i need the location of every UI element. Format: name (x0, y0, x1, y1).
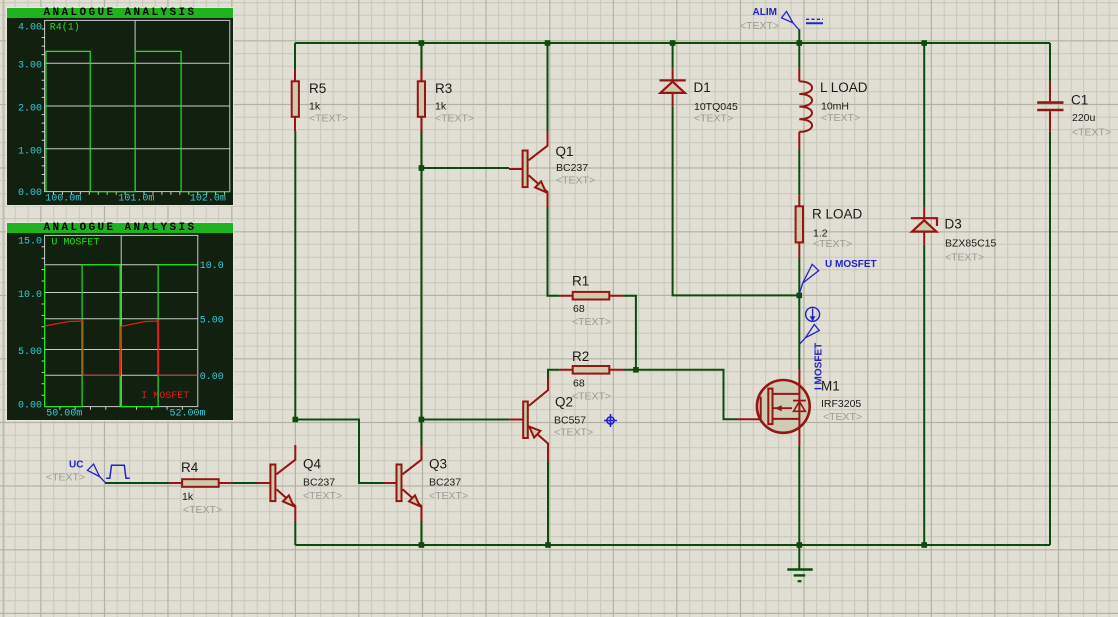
wire D3 bottom (923, 245, 925, 545)
wire D1 top (672, 43, 674, 68)
svg-text:IRF3205: IRF3205 (821, 398, 861, 410)
svg-text:68: 68 (573, 377, 585, 389)
wire drain node to M1 (798, 295, 800, 369)
wire R5 bottom to node (294, 131, 296, 420)
junction R3/Q3 collector node (419, 417, 425, 423)
ground (787, 545, 812, 581)
junction ALIM/rail (797, 40, 803, 46)
gridlines (45, 20, 230, 191)
junction Q1/rail (545, 40, 551, 46)
junction D3/ground rail (921, 542, 927, 548)
svg-text:Q3: Q3 (429, 457, 447, 472)
junction D1/rail (670, 40, 676, 46)
wire R4 to Q4 base (232, 482, 257, 484)
junction R3/rail (419, 40, 425, 46)
svg-text:1k: 1k (309, 100, 321, 112)
svg-text:UC: UC (69, 460, 83, 471)
wire bottom ground rail (295, 544, 1050, 546)
graph panel 2: ANALOGUE ANALYSIS (U MOSFET / I MOSFET) (6, 222, 234, 421)
wire ALIM drop (798, 30, 800, 44)
resistor R4 (169, 479, 233, 487)
resistor R1 (559, 292, 624, 300)
svg-text:U MOSFET: U MOSFET (825, 259, 877, 270)
wire Q2 collector to R2 (548, 370, 559, 378)
axis ticks (42, 247, 45, 395)
svg-text:<TEXT>: <TEXT> (694, 113, 733, 125)
wire Q2 base (421, 419, 509, 421)
svg-text:<TEXT>: <TEXT> (813, 238, 852, 250)
svg-text:Q4: Q4 (303, 457, 322, 472)
svg-text:C1: C1 (1071, 93, 1088, 108)
wire node to Q3 base (295, 420, 383, 484)
resistor R5 (292, 69, 299, 131)
generator UC (pulse source symbol) (87, 464, 129, 482)
svg-text:Q1: Q1 (556, 144, 574, 159)
transistor Q2 (PNP) (509, 378, 548, 462)
svg-text:68: 68 (573, 303, 585, 315)
wire R1 right (624, 296, 636, 370)
wire Q4 emitter down (294, 521, 296, 545)
svg-text:R1: R1 (572, 273, 589, 288)
svg-text:<TEXT>: <TEXT> (435, 112, 474, 124)
svg-text:10TQ045: 10TQ045 (694, 101, 738, 113)
junction drain node (797, 293, 803, 299)
junction D3/rail (921, 40, 927, 46)
origin marker (604, 414, 617, 427)
svg-text:D1: D1 (694, 80, 711, 95)
wire Q1 base (421, 167, 509, 169)
svg-text:1k: 1k (435, 100, 447, 112)
y axis labels right (200, 261, 224, 383)
x axis labels (46, 408, 205, 419)
transistor Q1 (509, 131, 548, 207)
svg-text:BC237: BC237 (303, 477, 335, 489)
plot frame (45, 235, 198, 406)
wire R LOAD to drain node (798, 258, 800, 295)
resistor R2 (559, 366, 624, 374)
svg-text:<TEXT>: <TEXT> (309, 112, 348, 124)
inductor L LOAD (799, 68, 812, 149)
wire UC to R4 (105, 482, 169, 484)
x axis labels (45, 193, 226, 204)
svg-text:<TEXT>: <TEXT> (183, 504, 222, 516)
svg-text:10mH: 10mH (821, 100, 849, 112)
junction M1 source/ground rail (797, 542, 803, 548)
svg-text:R5: R5 (309, 81, 326, 96)
wire Q1 collector to rail (547, 43, 549, 131)
svg-text:<TEXT>: <TEXT> (740, 20, 779, 32)
svg-text:<TEXT>: <TEXT> (821, 112, 860, 124)
wire M1 source to ground rail (798, 446, 800, 545)
trace I MOSFET red (45, 321, 198, 375)
junction Q1 base node (419, 165, 425, 171)
svg-text:<TEXT>: <TEXT> (572, 391, 611, 403)
wire Q1 emitter to R1 (548, 207, 560, 296)
wire R3 bottom (420, 131, 422, 168)
wire D1 bottom to drain node (673, 107, 800, 296)
svg-text:<TEXT>: <TEXT> (46, 472, 85, 484)
wire Q2 emitter down (547, 462, 549, 545)
svg-text:I MOSFET: I MOSFET (814, 343, 825, 390)
svg-text:BC557: BC557 (554, 415, 586, 427)
svg-text:R3: R3 (435, 81, 452, 96)
wire R3 line down to Q3 collector (420, 168, 422, 445)
wire R5 top (294, 43, 296, 69)
svg-text:ALIM: ALIM (753, 7, 777, 18)
junction Q2 emitter/ground rail (545, 542, 551, 548)
wire D3 top (923, 43, 925, 207)
wire C1 top (1049, 43, 1051, 82)
junction R5/Q4 collector node (293, 417, 299, 423)
svg-text:220u: 220u (1072, 112, 1096, 124)
svg-text:<TEXT>: <TEXT> (556, 174, 595, 186)
y axis labels left (18, 236, 42, 411)
wire R2 right to MOSFET gate (624, 370, 737, 420)
zener diode D3 (911, 207, 937, 245)
wire L LOAD top (798, 43, 800, 68)
graph panel 1: ANALOGUE ANALYSIS (R4(1)) (6, 7, 234, 206)
trace R4(1) square wave (46, 51, 230, 191)
svg-text:BC237: BC237 (429, 477, 461, 489)
svg-text:R LOAD: R LOAD (812, 207, 863, 222)
junction Q3 emitter/ground rail (419, 542, 425, 548)
MOSFET M1 (737, 370, 810, 446)
plot frame (45, 20, 230, 191)
generator ALIM (DC source symbol) (782, 11, 824, 30)
trace U MOSFET green (45, 265, 198, 407)
transistor Q3 (383, 445, 422, 521)
svg-text:BZX85C15: BZX85C15 (945, 238, 997, 250)
gridlines (45, 235, 198, 406)
svg-text:<TEXT>: <TEXT> (1072, 127, 1111, 139)
y axis labels (18, 22, 42, 199)
wire L LOAD to R LOAD (798, 149, 800, 196)
svg-text:Q2: Q2 (555, 395, 573, 410)
current probe I MOSFET (799, 307, 819, 344)
svg-text:<TEXT>: <TEXT> (823, 411, 862, 423)
wire top supply rail (295, 42, 1050, 44)
resistor R3 (418, 69, 425, 131)
svg-text:R2: R2 (572, 349, 589, 364)
junction R1/R2 node (633, 367, 639, 373)
resistor R LOAD (796, 196, 803, 258)
svg-text:1k: 1k (182, 491, 194, 503)
capacitor C1 (1037, 82, 1063, 131)
voltage probe U MOSFET (799, 264, 819, 295)
svg-text:<TEXT>: <TEXT> (554, 426, 593, 438)
wire Q3 emitter down (420, 521, 422, 545)
svg-text:<TEXT>: <TEXT> (303, 490, 342, 502)
transistor Q4 (257, 445, 296, 521)
svg-text:<TEXT>: <TEXT> (429, 490, 468, 502)
axis ticks (42, 29, 45, 183)
svg-text:<TEXT>: <TEXT> (945, 251, 984, 263)
svg-text:<TEXT>: <TEXT> (572, 316, 611, 328)
svg-text:BC237: BC237 (556, 162, 588, 174)
svg-text:R4: R4 (181, 460, 199, 475)
wire C1 bottom (1049, 131, 1051, 545)
wire R3 top (420, 43, 422, 69)
svg-text:L LOAD: L LOAD (820, 80, 868, 95)
diode D1 (660, 68, 686, 106)
svg-text:D3: D3 (945, 217, 962, 232)
